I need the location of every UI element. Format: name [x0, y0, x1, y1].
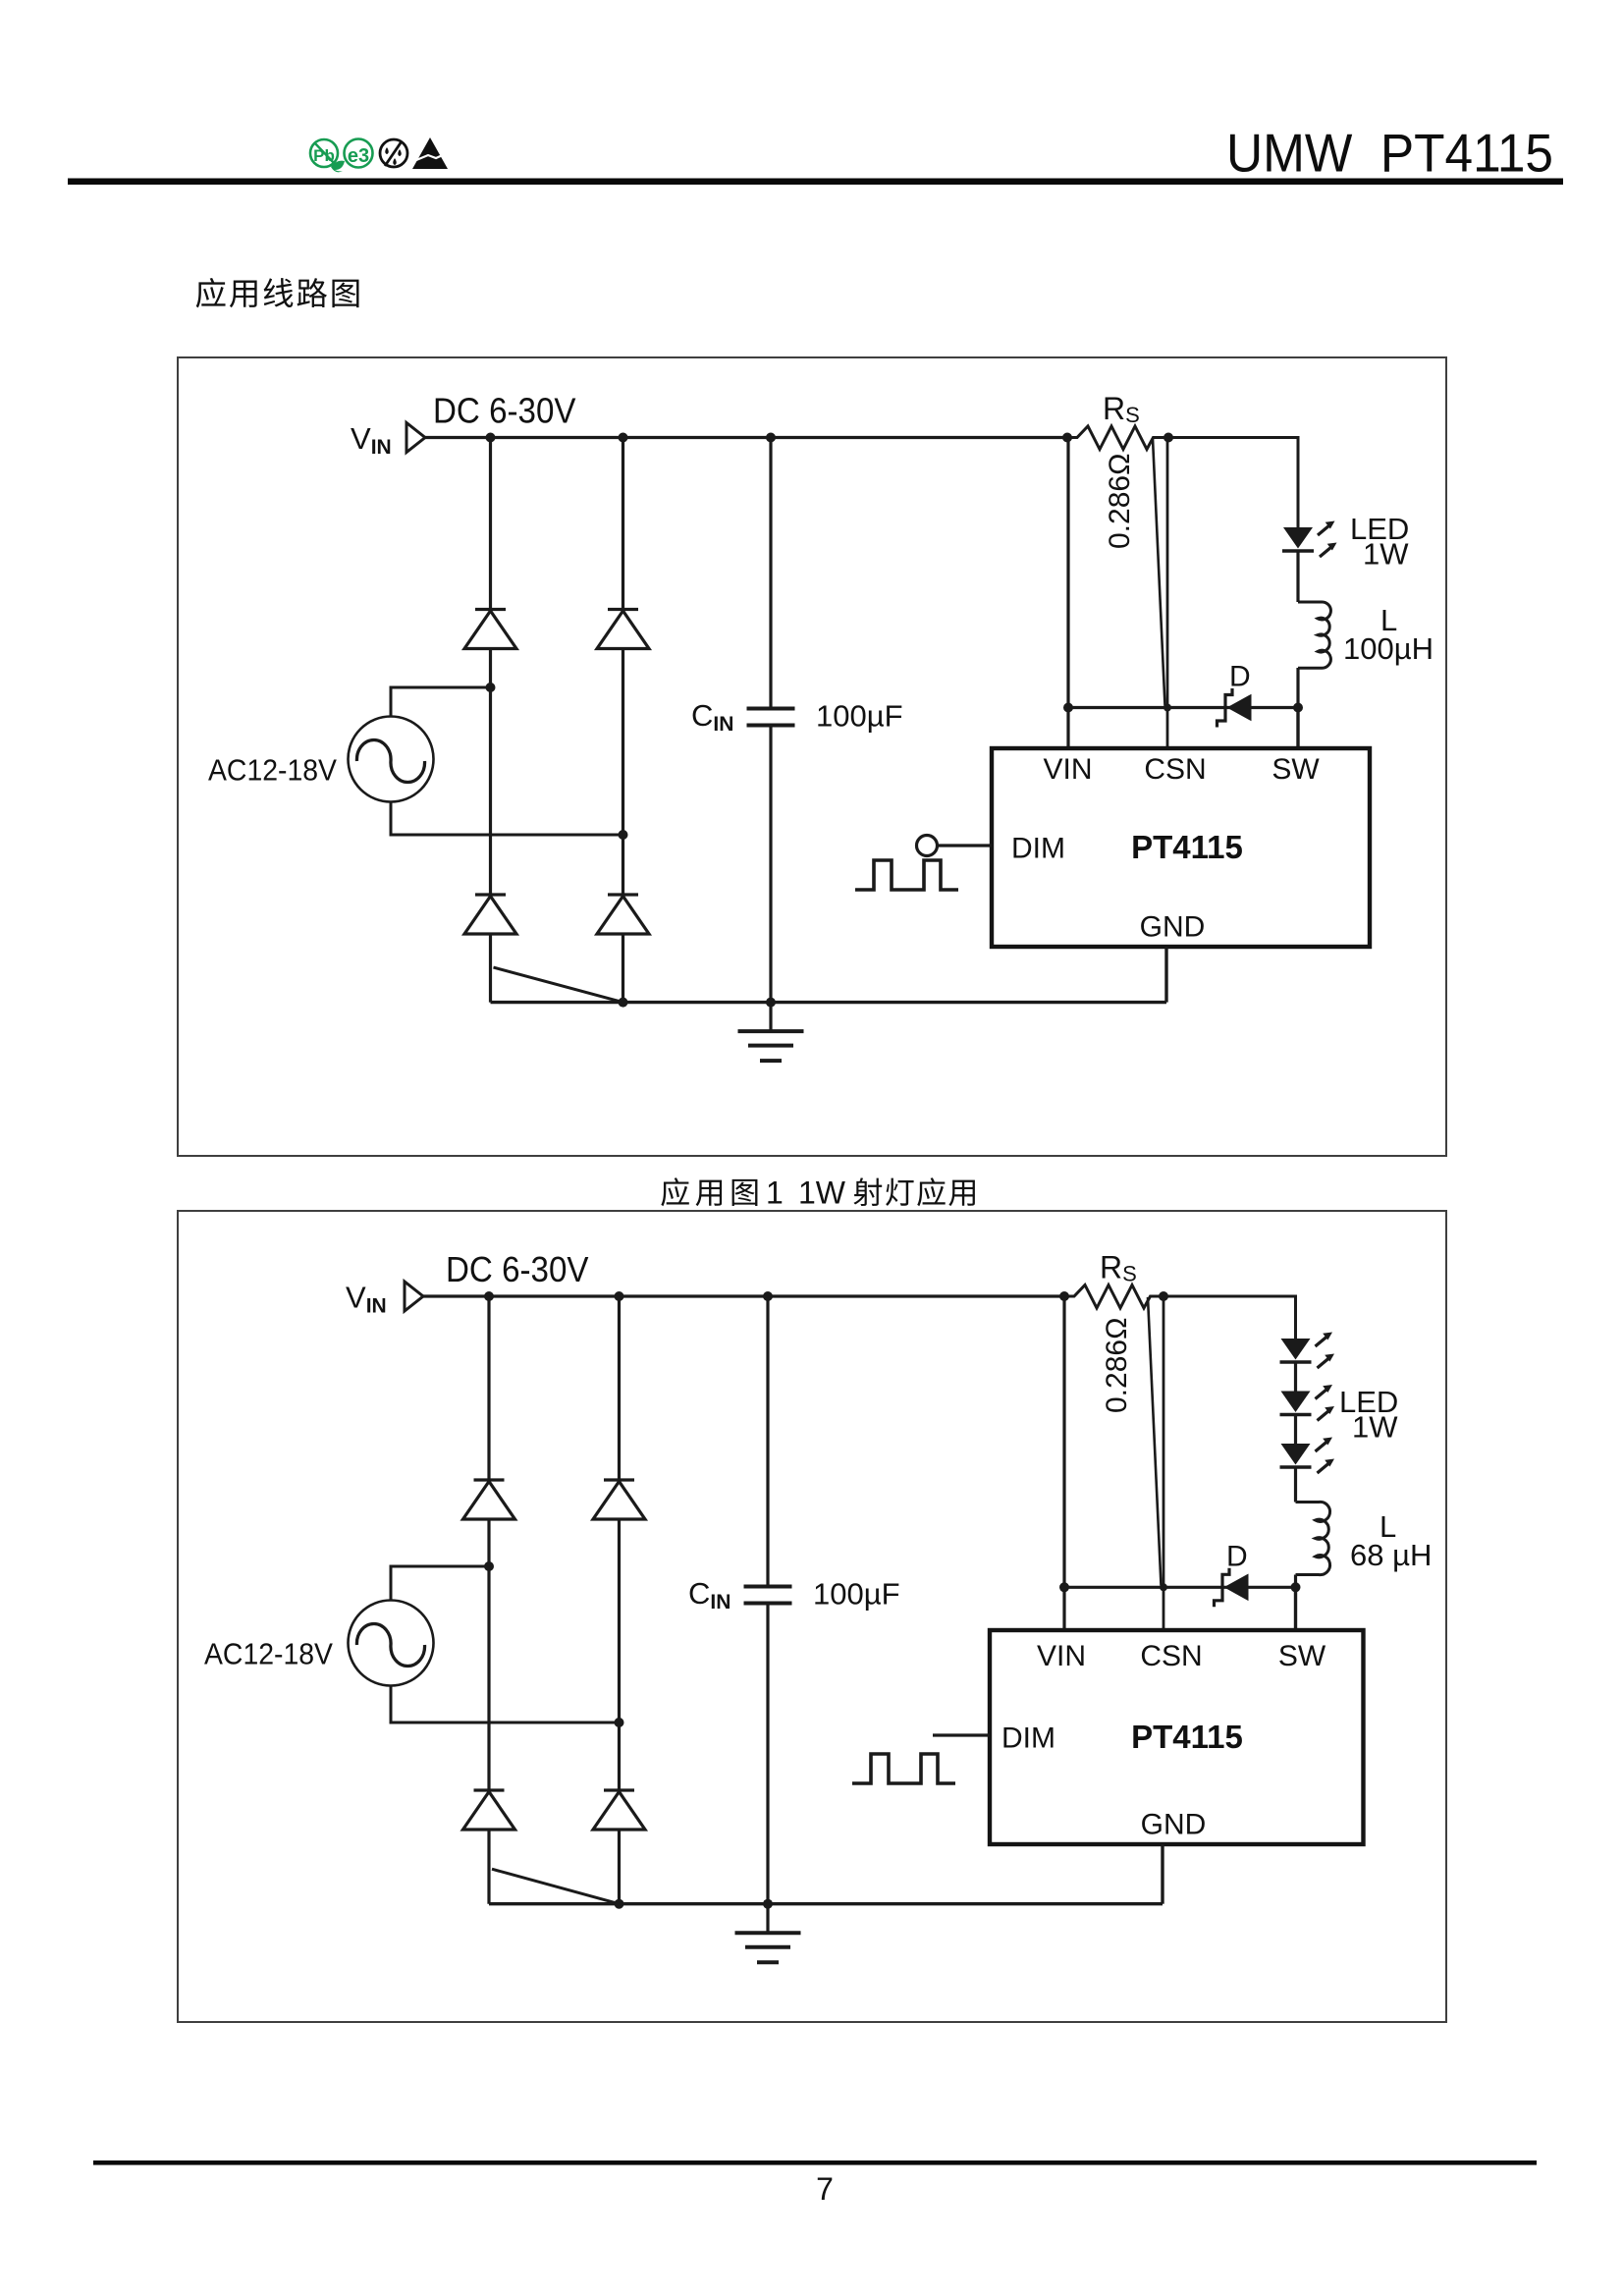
LED LED1 (circuit 1): [1282, 521, 1337, 558]
wire LED to inductor (circuit 2): [1294, 1468, 1297, 1503]
junction dot AC top (circuit 1): [486, 683, 496, 692]
svg-text:DIM: DIM: [1001, 1722, 1055, 1755]
wire DIM (circuit 2): [933, 1733, 990, 1736]
node VIN input terminal (circuit 2): [405, 1282, 423, 1311]
svg-text:VIN: VIN: [1043, 753, 1092, 786]
wire branch2 lower (circuit 1): [622, 934, 624, 1003]
wire CSN sense slant (circuit 2): [1148, 1297, 1162, 1585]
resistor RS (circuit 2): [1064, 1285, 1163, 1309]
label L (circuit 2): [1380, 1509, 1396, 1544]
frame border (circuit 2): [178, 1211, 1446, 2022]
label D (circuit 1): [1229, 661, 1251, 693]
caption: figure 1, 1W spotlight application: [661, 1175, 975, 1211]
IC U1 PT4115 (circuit 2): [990, 1630, 1364, 1844]
svg-text:AC12-18V: AC12-18V: [204, 1638, 334, 1671]
inductor L (circuit 2): [1296, 1502, 1330, 1574]
junction dots bottom bus (circuit 2): [615, 1899, 774, 1909]
label 1W (circuit 1): [1363, 537, 1409, 572]
part name PT4115 (circuit 1): [1131, 829, 1243, 865]
wire branch1 lower (circuit 1): [489, 934, 492, 1003]
svg-text:0.286Ω: 0.286Ω: [1104, 454, 1136, 550]
pin label DIM (circuit 1): [1011, 833, 1065, 865]
junction dot AC bottom (circuit 2): [615, 1718, 624, 1727]
wire branch2 upper (circuit 2): [618, 1296, 621, 1480]
wire branch1 middle (circuit 1): [489, 649, 492, 896]
ground symbol (circuit 1): [738, 1003, 804, 1062]
wire VIN-D-SW horizontal (circuit 2): [1064, 1586, 1296, 1589]
wire branch2 middle (circuit 1): [622, 649, 624, 896]
resistor RS (circuit 1): [1067, 426, 1168, 450]
wire branch1 lower (circuit 2): [487, 1830, 490, 1904]
part name PT4115 (circuit 2): [1131, 1719, 1243, 1755]
page number 7: [816, 2171, 834, 2207]
svg-text:DIM: DIM: [1011, 833, 1065, 865]
header title UMW PT4115: [1226, 123, 1553, 184]
PWM pulse waveform (circuit 2): [852, 1754, 955, 1783]
pin label VIN (circuit 2): [1037, 1640, 1086, 1672]
wire Cin branch upper (circuit 1): [769, 438, 772, 709]
pin label GND (circuit 2): [1141, 1809, 1207, 1841]
svg-text:CSN: CSN: [1144, 753, 1206, 786]
icon e3: [345, 139, 373, 168]
label L value (circuit 2): [1350, 1538, 1432, 1572]
svg-text:SW: SW: [1271, 753, 1320, 786]
svg-text:PT4115: PT4115: [1131, 1719, 1243, 1755]
wire LED link 1 (circuit 2): [1294, 1363, 1297, 1392]
svg-text:1W: 1W: [1352, 1410, 1398, 1445]
ground symbol (circuit 2): [735, 1904, 801, 1963]
svg-text:68 µH: 68 µH: [1350, 1538, 1432, 1572]
svg-text:GND: GND: [1141, 1809, 1207, 1841]
label L (circuit 1): [1380, 603, 1397, 637]
diode D freewheel (circuit 2): [1215, 1568, 1249, 1608]
label AC12-18V (circuit 1): [208, 754, 338, 788]
wire LED link 2 (circuit 2): [1294, 1416, 1297, 1445]
svg-text:7: 7: [816, 2171, 834, 2207]
svg-text:GND: GND: [1140, 911, 1206, 944]
capacitor CIN (circuit 1): [747, 709, 795, 726]
svg-text:UMW PT4115: UMW PT4115: [1226, 123, 1553, 184]
pin label CSN (circuit 1): [1144, 753, 1206, 786]
IC U1 PT4115 (circuit 1): [992, 748, 1370, 947]
svg-text:D: D: [1226, 1540, 1248, 1572]
AC source V1 (circuit 1): [349, 717, 434, 802]
wire AC source top connection (circuit 2): [391, 1566, 489, 1601]
wire SW pin (circuit 2): [1294, 1587, 1297, 1630]
label 0.286 ohm (vertical) (circuit 1): [1104, 454, 1136, 550]
label RS (circuit 1): [1103, 391, 1140, 427]
svg-text:DC 6-30V: DC 6-30V: [446, 1249, 589, 1289]
svg-text:100µF: 100µF: [816, 699, 903, 734]
diode D3 bridge lower-left (circuit 2): [463, 1790, 515, 1830]
wire CSN pin (circuit 2): [1163, 1296, 1165, 1630]
label AC12-18V (circuit 2): [204, 1638, 334, 1671]
svg-text:1W: 1W: [798, 1175, 846, 1211]
DIM input terminal circle (circuit 1): [917, 836, 938, 856]
wire branch2 middle (circuit 2): [618, 1519, 621, 1790]
label L value (circuit 1): [1343, 631, 1434, 666]
diode D4 bridge lower-right (circuit 1): [597, 895, 649, 934]
label CIN (circuit 2): [688, 1576, 730, 1613]
svg-text:e3: e3: [348, 145, 369, 167]
wire VIN pin (circuit 2): [1062, 1296, 1065, 1630]
label VIN (circuit 1): [351, 421, 392, 459]
diode D1 bridge upper-left (circuit 2): [463, 1480, 515, 1519]
svg-text:0.286Ω: 0.286Ω: [1101, 1318, 1133, 1414]
diode D2 bridge upper-right (circuit 2): [593, 1480, 645, 1519]
svg-text:D: D: [1229, 661, 1251, 693]
svg-text:CSN: CSN: [1140, 1640, 1202, 1672]
diode D4 bridge lower-right (circuit 2): [593, 1790, 645, 1830]
AC source V1 (circuit 2): [349, 1601, 434, 1686]
wire AC source top connection (circuit 1): [391, 687, 491, 717]
wire DIM (circuit 1): [938, 844, 993, 847]
wire Cin branch upper (circuit 2): [766, 1296, 769, 1587]
pin label VIN (circuit 1): [1043, 753, 1092, 786]
icon Pb-free: [310, 139, 345, 172]
wire inductor to SW node (circuit 2): [1294, 1575, 1297, 1588]
label DC 6-30V (circuit 1): [433, 391, 576, 431]
diode D freewheel (circuit 1): [1217, 688, 1252, 728]
wire inductor to SW node (circuit 1): [1296, 668, 1299, 708]
wire top bus (circuit 2): [423, 1294, 1064, 1297]
svg-text:100µH: 100µH: [1343, 631, 1434, 666]
wire CSN sense slant (circuit 1): [1153, 439, 1165, 706]
wire diagonal bridge output (circuit 1): [494, 967, 623, 1003]
PWM pulse waveform (circuit 1): [855, 860, 958, 890]
junction dots bottom bus (circuit 1): [619, 998, 777, 1008]
junction dot AC top (circuit 2): [484, 1561, 494, 1571]
svg-text:1W: 1W: [1363, 537, 1409, 572]
label 0.286 ohm (vertical) (circuit 2): [1101, 1318, 1133, 1414]
pin label DIM (circuit 2): [1001, 1722, 1055, 1755]
pin label CSN (circuit 2): [1140, 1640, 1202, 1672]
junction dots on top bus (circuit 1): [486, 433, 1174, 443]
LED LED1 (circuit 2): [1280, 1333, 1335, 1369]
footer rule: [93, 2160, 1537, 2165]
wire branch1 upper (circuit 2): [487, 1296, 490, 1480]
LED LED3 (circuit 2): [1280, 1438, 1335, 1474]
wire bottom ground bus (circuit 2): [489, 1902, 1163, 1905]
svg-text:VIN: VIN: [1037, 1640, 1086, 1672]
wire top right to LED (circuit 1): [1168, 438, 1298, 528]
wire top right to LED (circuit 2): [1163, 1296, 1296, 1339]
wire branch1 upper (circuit 1): [489, 438, 492, 610]
diode D2 bridge upper-right (circuit 1): [597, 610, 649, 649]
wire GND pin (circuit 2): [1161, 1844, 1163, 1904]
label LED (circuit 1): [1350, 512, 1409, 546]
wire CSN pin (circuit 1): [1166, 438, 1169, 749]
heading: application circuit diagram (CJK): [196, 278, 359, 307]
wire AC source bottom connection (circuit 2): [391, 1686, 620, 1723]
pin label GND (circuit 1): [1140, 911, 1206, 944]
label VIN (circuit 2): [346, 1281, 387, 1318]
label D (circuit 2): [1226, 1540, 1248, 1572]
junction dots lower wire (circuit 1): [1063, 703, 1303, 713]
label DC 6-30V (circuit 2): [446, 1249, 589, 1289]
wire SW pin (circuit 1): [1296, 708, 1299, 749]
svg-text:DC 6-30V: DC 6-30V: [433, 391, 576, 431]
svg-text:AC12-18V: AC12-18V: [208, 754, 338, 788]
icon moisture-caution: [380, 139, 407, 167]
wire diagonal bridge output (circuit 2): [492, 1869, 620, 1904]
LED LED2 (circuit 2): [1280, 1385, 1335, 1421]
svg-text:SW: SW: [1278, 1640, 1326, 1672]
svg-text:100µF: 100µF: [813, 1577, 900, 1612]
wire VIN-D-SW horizontal (circuit 1): [1068, 706, 1298, 709]
frame border (circuit 1): [178, 357, 1446, 1156]
wire Cin branch lower (circuit 1): [769, 726, 772, 1003]
svg-text:1: 1: [766, 1175, 784, 1211]
diode D1 bridge upper-left (circuit 1): [464, 610, 516, 649]
diode D3 bridge lower-left (circuit 1): [464, 895, 516, 934]
wire branch1 middle (circuit 2): [487, 1519, 490, 1790]
wire branch2 lower (circuit 2): [618, 1830, 621, 1904]
label 100uF (circuit 1): [816, 699, 903, 734]
label RS (circuit 2): [1100, 1250, 1137, 1286]
pin label SW (circuit 1): [1271, 753, 1320, 786]
wire GND pin (circuit 1): [1164, 947, 1167, 1003]
wire branch2 upper (circuit 1): [622, 438, 624, 610]
header rule: [68, 179, 1563, 186]
svg-text:PT4115: PT4115: [1131, 829, 1243, 865]
junction dots lower wire (circuit 2): [1059, 1582, 1301, 1592]
icon ESD-caution triangle: [412, 137, 448, 169]
junction dot AC bottom (circuit 1): [619, 830, 628, 840]
inductor L (circuit 1): [1298, 602, 1330, 668]
label LED (circuit 2): [1339, 1385, 1398, 1419]
wire top bus (circuit 1): [425, 436, 1067, 439]
wire Cin branch lower (circuit 2): [766, 1604, 769, 1904]
wire bottom ground bus (circuit 1): [491, 1001, 1167, 1004]
wire LED to inductor (circuit 1): [1296, 552, 1299, 602]
junction dots on top bus (circuit 2): [484, 1291, 1168, 1301]
capacitor CIN (circuit 2): [744, 1587, 792, 1604]
pin label SW (circuit 2): [1278, 1640, 1326, 1672]
label 1W (circuit 2): [1352, 1410, 1398, 1445]
wire AC source bottom connection (circuit 1): [391, 802, 623, 836]
label CIN (circuit 1): [691, 698, 733, 736]
node VIN input terminal (circuit 1): [406, 423, 425, 453]
wire VIN pin (circuit 1): [1066, 438, 1069, 749]
label 100uF (circuit 2): [813, 1577, 900, 1612]
